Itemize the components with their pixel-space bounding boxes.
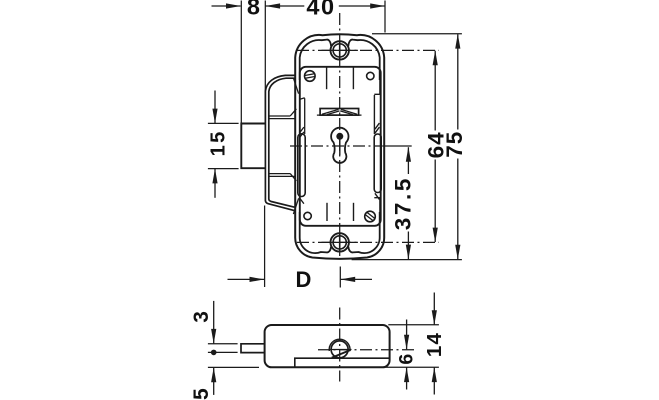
bottom mounting screw inner circle bbox=[333, 236, 346, 249]
screw axis centerline top (64 ref) bbox=[297, 49, 439, 51]
top screw horizontal centerline segment bbox=[322, 49, 358, 51]
bolt guide opening top lines bbox=[269, 109, 297, 119]
mechanism line lower-right bbox=[353, 203, 355, 221]
profile vertical centerline bbox=[339, 308, 341, 382]
svg-text:40: 40 bbox=[306, 0, 335, 20]
svg-text:3: 3 bbox=[190, 311, 213, 323]
keyhole shaft line bbox=[339, 140, 341, 156]
right side slot bbox=[374, 134, 381, 193]
arrow 6 top bbox=[404, 335, 409, 350]
backplate strip outer boundary bbox=[265, 75, 295, 210]
profile cylinder axis solid segment bbox=[330, 349, 352, 351]
top mounting screw outer circle bbox=[331, 41, 349, 59]
extension line D left bbox=[264, 206, 266, 288]
arrow 75 top bbox=[455, 34, 460, 49]
dimension line 3 bbox=[213, 301, 215, 344]
svg-text:14: 14 bbox=[423, 332, 446, 357]
corner screw bottom-right (slotted) bbox=[365, 211, 376, 222]
svg-text:6: 6 bbox=[395, 354, 417, 365]
arrow 40 left bbox=[265, 3, 280, 8]
profile horizontal centerline bbox=[318, 349, 415, 351]
case corner detail bottom-left bbox=[293, 198, 304, 215]
dimension line 6 bbox=[406, 320, 408, 390]
arrow 37.5 top bbox=[406, 147, 411, 162]
corner screw top-left (slotted) bbox=[305, 71, 316, 82]
arrow 37.5 bottom bbox=[406, 245, 411, 260]
profile cylinder outer arc bbox=[329, 339, 350, 351]
case corner detail top-left bbox=[293, 78, 304, 138]
top mounting screw inner circle bbox=[333, 44, 346, 57]
dimension line 15 upper bbox=[214, 91, 216, 124]
arrow 14 bottom bbox=[432, 367, 437, 382]
faceplate inner arc top-left with hook to screw bbox=[300, 40, 331, 80]
arrow 14 top bbox=[432, 310, 437, 325]
mechanism line upper-right bbox=[352, 67, 354, 89]
profile latch bolt bbox=[241, 344, 265, 353]
svg-text:D: D bbox=[296, 267, 312, 292]
faceplate inner arc top-right with hook to screw bbox=[348, 40, 379, 80]
dimension line 5 bbox=[213, 368, 215, 395]
dimension line 75 bbox=[457, 34, 459, 259]
svg-text:15: 15 bbox=[208, 129, 230, 156]
dimension line D right bbox=[341, 278, 372, 280]
left side slot bbox=[298, 134, 305, 197]
arrow 64 top bbox=[433, 50, 438, 65]
dimension line 8/40 segments bbox=[212, 5, 385, 7]
arrow 40 right bbox=[370, 3, 385, 8]
arrow 64 bottom bbox=[433, 228, 438, 243]
dimension dot 3 bbox=[211, 350, 217, 356]
keyhole outline bbox=[331, 128, 348, 163]
svg-text:37.5: 37.5 bbox=[390, 176, 415, 230]
extension line 5 bottom bbox=[208, 366, 259, 368]
hatched slot rectangle bbox=[320, 109, 359, 116]
arrow D right bbox=[340, 277, 355, 282]
faceplate inner arc bottom-left with hook to screw bbox=[300, 212, 331, 253]
svg-text:75: 75 bbox=[442, 131, 467, 158]
corner hole bottom-left bbox=[304, 212, 311, 219]
arrow 15 top bbox=[212, 109, 217, 124]
extension line bottom shared 37.5/75 bbox=[352, 259, 462, 261]
screw axis centerline bottom (64 ref) bbox=[297, 241, 439, 243]
mechanism line lower-left bbox=[326, 203, 328, 221]
vertical centerline (top view) bbox=[339, 13, 341, 260]
bottom mounting screw outer circle bbox=[331, 233, 349, 251]
extension lines for 3 bbox=[208, 344, 238, 353]
dimension line 64 bbox=[434, 51, 436, 242]
extension line faceplate right (40) bbox=[384, 1, 386, 33]
arrow 3 bbox=[211, 329, 216, 344]
extension line bolt face (8) bbox=[240, 1, 242, 123]
svg-text:8: 8 bbox=[247, 0, 260, 20]
extension line 37.5 top (keyhole axis) bbox=[382, 145, 411, 147]
corner hole top-right bbox=[367, 72, 374, 79]
hatched slot mid line bbox=[317, 114, 362, 116]
arrow 5 bbox=[211, 367, 216, 382]
case corner detail top-right bbox=[374, 75, 380, 134]
extension line top shared 75 bbox=[372, 33, 462, 35]
latch bolt (top view) bbox=[241, 124, 265, 169]
dimension line 15 lower bbox=[214, 169, 216, 198]
bottom screw horizontal centerline segment bbox=[322, 241, 358, 243]
svg-text:5: 5 bbox=[190, 388, 213, 400]
mechanism line upper-left bbox=[326, 67, 328, 89]
horizontal centerline through keyhole bbox=[290, 145, 382, 147]
arrow 8 left bbox=[226, 3, 241, 8]
keyhole center pin (filled) bbox=[336, 133, 343, 140]
profile key wedge bbox=[332, 350, 351, 358]
dimension line 14 bbox=[433, 293, 435, 395]
arrow D left bbox=[250, 277, 265, 282]
faceplate inner arc bottom-right with hook to screw bbox=[348, 212, 379, 253]
profile body bbox=[265, 325, 390, 367]
top mounting screw slot bbox=[339, 41, 341, 59]
dimension line 37.5 bbox=[407, 147, 409, 259]
extension line D right (centerline stub) bbox=[339, 267, 341, 288]
arrow 15 bottom bbox=[212, 169, 217, 184]
extension line backplate face (8/40) bbox=[264, 1, 266, 123]
hatched slot hatch lines bbox=[322, 109, 357, 114]
lock case rounded rectangle bbox=[300, 67, 381, 226]
backplate strip inner boundary bbox=[269, 78, 295, 207]
profile bottom step bbox=[295, 358, 390, 367]
profile key cylinder circle bbox=[331, 341, 348, 358]
bottom mounting screw slot bbox=[339, 233, 341, 251]
arrow 75 bottom bbox=[455, 245, 460, 260]
extension line 14 top bbox=[388, 324, 439, 326]
extension lines for 15 bbox=[208, 123, 239, 168]
extension line 6/14 bottom bbox=[379, 366, 439, 368]
faceplate outer stadium outline bbox=[295, 34, 384, 259]
arrow 6 bottom bbox=[404, 367, 409, 382]
case corner detail bottom-right bbox=[374, 193, 380, 217]
dimension line D left bbox=[228, 278, 265, 280]
bolt guide opening bottom lines bbox=[269, 174, 297, 181]
